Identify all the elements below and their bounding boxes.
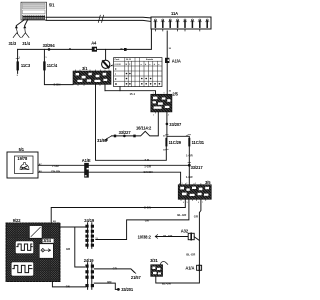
svg-text:15: 15: [163, 149, 166, 151]
wire 11A to ignition feed rail (33/294 rail): [18, 29, 152, 49]
svg-text:c: c: [149, 64, 150, 66]
svg-text:7: 7: [202, 202, 203, 204]
wire to fuse 11C3: [16, 49, 19, 61]
svg-text:1: 1: [19, 57, 21, 59]
svg-text:1-GR: 1-GR: [186, 175, 193, 179]
wire A1/A down to 3/31: [156, 270, 200, 283]
junction 33/217: [188, 164, 203, 170]
control module 9/22: [6, 218, 60, 282]
wire 11C4 to switch 3/1: [44, 70, 73, 86]
fuse 11C/31: [186, 136, 205, 147]
wire 10/38:2 to A32: [138, 234, 189, 239]
wire 3/5 right rail down: [199, 199, 201, 265]
svg-text:16/114:2: 16/114:2: [136, 126, 152, 131]
svg-text:2: 2: [153, 114, 154, 116]
pin ticks fuses 11C/29 11C/31: [166, 135, 191, 163]
svg-text:GR: GR: [194, 214, 198, 218]
component 3/31: [150, 258, 168, 276]
connector A4: [91, 41, 97, 52]
svg-text:33/227: 33/227: [119, 130, 132, 135]
wire GN-BN from 19/78 to 3/5: [38, 172, 181, 185]
connector 24/19 (upper): [84, 218, 98, 248]
svg-text:A32: A32: [181, 228, 189, 233]
svg-text:S-BN: S-BN: [144, 206, 151, 210]
wire 7-OR from 19/78 to 33/217: [38, 164, 189, 166]
svg-text:7-OR: 7-OR: [52, 164, 59, 168]
svg-text:A4: A4: [91, 41, 97, 46]
fuse 11C/29: [163, 136, 182, 152]
svg-text:21/57: 21/57: [131, 275, 142, 280]
svg-text:5/1: 5/1: [19, 147, 25, 152]
splice 33/201: [117, 287, 134, 292]
fuse output stubs below 11A: [155, 29, 199, 31]
ground 31/86: [97, 136, 112, 143]
svg-text:A1/A: A1/A: [172, 59, 181, 64]
svg-text:15-1: 15-1: [130, 92, 136, 96]
connector A32: [181, 228, 200, 240]
svg-text:31/86: 31/86: [97, 138, 108, 143]
svg-text:3: 3: [195, 183, 196, 185]
svg-text:1: 1: [153, 93, 154, 95]
wire 33/217 down to 3/5: [188, 165, 190, 184]
svg-text:6: 6: [198, 202, 199, 204]
pin ticks relay 2/5: [156, 112, 167, 113]
svg-text:3/34: 3/34: [43, 238, 51, 243]
svg-text:33/207: 33/207: [169, 122, 182, 127]
svg-text:9/22: 9/22: [13, 218, 21, 223]
svg-text:31/4: 31/4: [22, 41, 30, 46]
svg-text:BL-GR: BL-GR: [162, 282, 171, 286]
svg-text:2: 2: [186, 183, 187, 185]
wire 9/22 to 24/19 upper and 24/19 lower (GR branch): [60, 227, 85, 267]
svg-text:1-GR: 1-GR: [144, 165, 151, 169]
ignition switch circle: [102, 60, 113, 68]
component 5/1 left with 19/78: [7, 147, 38, 178]
table row labels: [115, 68, 117, 86]
connector 24/19 (lower): [84, 258, 95, 289]
svg-text:BL-GR: BL-GR: [163, 234, 172, 238]
svg-text:7-R: 7-R: [145, 158, 150, 162]
svg-text:1-GR: 1-GR: [186, 154, 193, 158]
svg-text:24/19: 24/19: [84, 258, 95, 263]
svg-text:Posit: Posit: [115, 58, 120, 61]
svg-text:3: 3: [163, 93, 164, 95]
svg-text:11C/31: 11C/31: [192, 140, 205, 145]
svg-text:III: III: [115, 83, 117, 86]
junction 33/294: [43, 43, 56, 51]
svg-text:A1/E: A1/E: [82, 158, 91, 163]
svg-text:33/201: 33/201: [121, 287, 134, 292]
svg-text:GR: GR: [145, 219, 149, 223]
svg-text:e: e: [158, 64, 159, 66]
svg-text:33/217: 33/217: [191, 165, 204, 170]
svg-text:4: 4: [168, 114, 169, 116]
fuse 11C4: [43, 57, 58, 70]
inline connector ticks on 33/227 wire: [133, 135, 135, 138]
wire A1/A to relay 2/5: [166, 63, 168, 94]
svg-text:0 I II III: 0 I II III: [115, 64, 121, 66]
svg-text:R: R: [69, 47, 71, 51]
svg-text:11C/29: 11C/29: [169, 140, 182, 145]
svg-text:3/5: 3/5: [205, 180, 211, 185]
wire to fuse 11C4: [43, 49, 45, 61]
svg-text:BN: BN: [66, 284, 70, 288]
svg-text:24/19: 24/19: [84, 218, 95, 223]
svg-text:30: 30: [169, 91, 172, 93]
svg-text:30: 30: [163, 136, 166, 138]
svg-text:4: 4: [183, 202, 184, 204]
svg-text:2/5: 2/5: [172, 91, 178, 96]
svg-text:33/294: 33/294: [43, 43, 56, 48]
ignition switch stub: [105, 49, 107, 60]
svg-text:3/31: 3/31: [150, 258, 158, 263]
svg-text:11C3: 11C3: [21, 63, 31, 68]
connector A1/E: [82, 158, 91, 178]
wire 3/5 to 9/22 (B3 feed): [51, 199, 185, 223]
svg-text:11C/4: 11C/4: [47, 63, 58, 68]
wire battery feed double line to 11A: [46, 17, 151, 21]
wire 11A to connector A1/A: [166, 31, 168, 58]
wire 24/19 lower to splice 33/201: [94, 283, 118, 289]
wire 11C/31 down to 33/217: [188, 146, 190, 165]
svg-text:19/78: 19/78: [17, 156, 28, 161]
svg-text:31/3: 31/3: [9, 41, 17, 46]
svg-text:5: 5: [187, 202, 188, 204]
svg-text:30-15: 30-15: [126, 59, 131, 61]
junction 33/227: [119, 130, 132, 137]
component 3/5: [178, 180, 211, 199]
connector A1/A (top): [165, 58, 181, 64]
svg-text:S-BN: S-BN: [54, 83, 61, 87]
svg-text:BN: BN: [107, 280, 111, 284]
svg-text:GR: GR: [113, 266, 117, 270]
svg-text:3/1: 3/1: [82, 66, 88, 71]
wire 3/1 down long to lamp rail: [96, 84, 167, 160]
ignition switch position table: [114, 58, 162, 87]
table dots: [126, 73, 161, 85]
ground 31/4: [22, 20, 31, 46]
svg-text:1: 1: [45, 57, 47, 59]
wire 24/19 lower to 21/57: [94, 266, 141, 280]
svg-text:2: 2: [17, 75, 19, 77]
svg-text:GR: GR: [66, 247, 70, 251]
connector A1/A (bottom): [185, 265, 201, 270]
svg-text:30: 30: [169, 48, 172, 50]
svg-text:GN-BN: GN-BN: [143, 170, 152, 174]
fuse elements inside 11A: [154, 19, 209, 27]
svg-text:Kontakt: Kontakt: [146, 58, 153, 61]
switch 3/1: [73, 66, 111, 84]
svg-text:R: R: [121, 47, 123, 51]
relay 2/5: [151, 91, 179, 112]
table header tiny text: [115, 58, 160, 66]
wire 3/5 to 24/19 upper: [96, 199, 189, 239]
svg-text:10/38:2: 10/38:2: [138, 235, 152, 240]
wire 9/22 bottom to 33/201: [52, 282, 85, 287]
wire relay to 33/207 and fuses 11C/29 11C/31: [167, 112, 189, 138]
wire 3/1 and table to relay 2/5: [105, 84, 156, 94]
wire relay to splice 33/227 with inline connector 16/114:2: [112, 112, 159, 136]
fuse box 11A: [151, 11, 211, 29]
inline connector tick on feed rail: [124, 48, 127, 51]
pin ticks 3/5: [180, 183, 206, 200]
break marks on feed wires: [98, 15, 103, 22]
pin ticks switch 3/1: [76, 70, 110, 86]
component 5/1 top box: [21, 2, 47, 20]
svg-text:5/1: 5/1: [49, 3, 55, 8]
junction 33/207: [166, 122, 182, 127]
svg-text:BL-GR: BL-GR: [177, 213, 186, 217]
svg-text:A1/A: A1/A: [185, 266, 194, 271]
svg-text:11A: 11A: [171, 11, 178, 16]
svg-text:BL-GR: BL-GR: [186, 252, 195, 256]
svg-text:1: 1: [182, 183, 183, 185]
svg-text:GN-BN: GN-BN: [51, 169, 60, 173]
ground 31/3: [9, 20, 25, 46]
fuse 11C3: [17, 57, 31, 77]
